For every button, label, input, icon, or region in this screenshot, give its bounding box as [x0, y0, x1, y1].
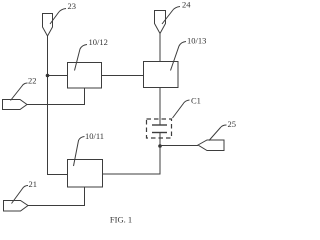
leader line 23	[50, 9, 66, 25]
svg-text:21: 21	[29, 179, 38, 189]
leader line 22	[11, 83, 28, 101]
terminal pin 23	[43, 14, 53, 37]
wire: pin 24 down to block 10/13 top	[159, 34, 161, 62]
terminal arrow 25	[198, 140, 224, 151]
wire: junction to arrow 25	[160, 145, 198, 147]
wire: node to block 10/12 left	[48, 75, 68, 77]
svg-text:25: 25	[228, 119, 237, 129]
wire: block 10/11 bottom riser	[84, 187, 86, 206]
terminal arrow 21	[4, 201, 29, 212]
block 10/13	[144, 62, 179, 88]
svg-text:10/13: 10/13	[187, 36, 206, 46]
leader line 21	[12, 186, 29, 204]
leader line 10/11	[74, 137, 85, 167]
junction node at capacitor output	[158, 144, 162, 148]
svg-text:22: 22	[28, 76, 37, 86]
block 10/12	[68, 63, 102, 89]
leader line C1	[173, 100, 190, 118]
leader line 25	[209, 125, 227, 141]
svg-text:23: 23	[68, 1, 77, 11]
svg-text:FIG. 1: FIG. 1	[110, 215, 132, 225]
terminal pin 24	[155, 11, 166, 34]
svg-text:24: 24	[182, 0, 191, 10]
capacitor C1 dashed outline	[147, 119, 172, 138]
wire: to arrow 21	[28, 205, 85, 207]
wire: junction down	[159, 146, 161, 174]
block 10/11	[68, 160, 103, 188]
wire: over to block 10/11 right	[103, 173, 161, 175]
wire: into block 10/11 left	[47, 174, 68, 176]
leader line 24	[162, 7, 180, 25]
wire: riser to block 10/12 bottom	[84, 88, 86, 105]
wire: block 10/12 right to block 10/13 left	[102, 75, 144, 77]
leader line 10/13	[171, 42, 187, 71]
svg-text:10/12: 10/12	[89, 37, 108, 47]
leader line 10/12	[75, 45, 88, 71]
svg-text:C1: C1	[191, 96, 201, 106]
svg-text:10/11: 10/11	[85, 131, 104, 141]
wire: capacitor bottom plate to junction	[159, 133, 161, 147]
wire: arrow 22 to riser	[27, 104, 85, 106]
wire: block 10/13 bottom to capacitor top plate	[159, 88, 161, 126]
terminal arrow 22	[3, 100, 28, 110]
junction node at pin23 line and 10/12 input	[46, 74, 50, 78]
wire: pin 23 down to lower row	[47, 36, 49, 175]
capacitor C1 plates	[152, 125, 167, 133]
